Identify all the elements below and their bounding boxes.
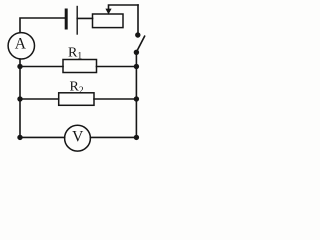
wire: top-left corner from ammeter up and right to battery bbox=[20, 18, 65, 32]
wire: R2 row right bbox=[94, 98, 136, 100]
junction dot right rail R2 row bbox=[134, 96, 139, 101]
junction dot bottom-right corner bbox=[134, 135, 139, 140]
wire: ammeter bottom stub and left rail down bbox=[19, 59, 21, 137]
svg-text:V: V bbox=[72, 129, 84, 146]
junction dot left rail R1 row bbox=[17, 64, 22, 69]
wire: right rail switch to bottom corner bbox=[135, 52, 137, 137]
wire: R2 row left bbox=[20, 98, 59, 100]
wire: right rail down to switch bbox=[137, 5, 139, 35]
wire: R1 row left bbox=[20, 66, 63, 68]
resistor R1 box bbox=[63, 60, 97, 73]
rheostat slider arrowhead bbox=[105, 9, 111, 15]
wire: bottom row left to voltmeter bbox=[20, 136, 65, 138]
resistor R2 box bbox=[59, 93, 94, 106]
voltmeter V circle bbox=[65, 125, 91, 151]
junction dot left rail R2 row bbox=[17, 96, 22, 101]
svg-text:A: A bbox=[15, 35, 27, 52]
battery: short thick negative plate bbox=[65, 10, 68, 28]
switch bottom terminal dot bbox=[134, 50, 139, 55]
switch top terminal dot bbox=[135, 32, 140, 37]
svg-text:R2: R2 bbox=[70, 80, 84, 96]
wire: voltmeter to bottom right corner bbox=[90, 136, 136, 138]
wire: battery to rheostat box bbox=[77, 17, 92, 19]
battery: long thin positive plate bbox=[76, 7, 78, 35]
rheostat slider arrow stem and top wire to right rail bbox=[109, 5, 139, 10]
ammeter A circle bbox=[8, 33, 34, 59]
svg-text:R1: R1 bbox=[68, 45, 82, 61]
rheostat box (variable resistor) bbox=[93, 14, 124, 28]
switch S: blade (open) bbox=[136, 36, 144, 52]
wire: R1 row right bbox=[97, 66, 137, 68]
junction dot right rail R1 row bbox=[134, 64, 139, 69]
junction dot bottom-left corner bbox=[17, 135, 22, 140]
